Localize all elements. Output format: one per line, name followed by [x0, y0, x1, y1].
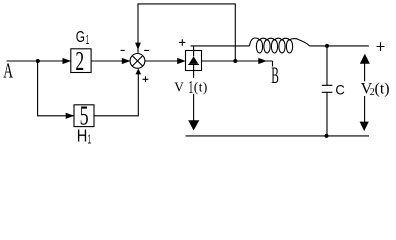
svg-text:(t): (t) — [194, 79, 208, 94]
svg-text:H: H — [77, 126, 88, 146]
svg-text:2: 2 — [75, 46, 84, 76]
svg-text:1: 1 — [88, 132, 92, 147]
svg-text:C: C — [335, 83, 345, 98]
svg-text:B: B — [271, 63, 279, 88]
svg-text:1: 1 — [188, 77, 193, 97]
svg-text:(t): (t) — [375, 80, 390, 97]
svg-text:V: V — [174, 79, 184, 94]
svg-text:G: G — [76, 29, 85, 46]
svg-text:1: 1 — [86, 33, 89, 47]
svg-text:A: A — [3, 59, 13, 83]
